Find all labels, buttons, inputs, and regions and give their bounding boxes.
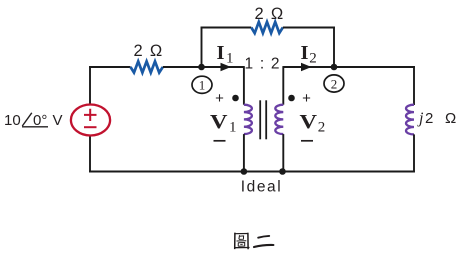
current I2 arrow — [301, 63, 312, 72]
label: Ideal — [241, 179, 283, 196]
wire: main horizontal, source to resistor R1 — [89, 66, 130, 68]
label: + (primary) — [215, 90, 224, 107]
node 1 junction dot — [198, 64, 205, 71]
node 2 junction dot — [331, 64, 338, 71]
wire: top rail right segment — [283, 27, 335, 29]
resistor R2 2 ohm (top, blue zigzag) — [251, 22, 282, 33]
wire: main horizontal, transformer secondary to right branch — [283, 66, 415, 68]
node 2 label (circled 2) — [324, 75, 344, 92]
inductor L1 j2 ohm (purple coil) — [406, 105, 414, 135]
svg-text:1: 1 — [229, 120, 237, 136]
svg-text:2: 2 — [309, 51, 317, 67]
label: 1 : 2 turns ratio — [245, 56, 281, 73]
label: minus (primary) — [214, 140, 226, 142]
label: 10 angle 0 degrees V (source value) — [4, 112, 63, 129]
junction dot: secondary to bottom rail — [279, 168, 286, 175]
polarity dot primary — [232, 95, 239, 102]
wire: left vertical from main wire to source top — [89, 66, 91, 105]
label: I2 — [301, 42, 317, 67]
svg-text:10: 10 — [4, 112, 21, 129]
wire: right vertical from inductor to bottom rail — [413, 134, 415, 172]
transformer T1 secondary winding (right coil) — [275, 66, 283, 171]
svg-text:I: I — [217, 42, 225, 64]
glyph TU (figure) — [234, 233, 249, 250]
wire: left vertical from source bottom to bottom rail — [89, 135, 91, 172]
wire: right riser from top rail to node 2 — [333, 27, 335, 67]
wire: top rail left segment — [201, 27, 252, 29]
label: minus (secondary) — [301, 140, 313, 142]
svg-text:2: 2 — [425, 110, 433, 127]
svg-text:I: I — [301, 42, 309, 64]
svg-text:2: 2 — [331, 76, 338, 91]
svg-text:0°: 0° — [33, 112, 47, 129]
svg-text:1: 1 — [226, 51, 234, 67]
svg-text:V: V — [300, 111, 318, 133]
svg-text:j: j — [417, 110, 424, 127]
svg-text:+: + — [302, 90, 311, 107]
svg-text:1 : 2: 1 : 2 — [245, 56, 281, 73]
svg-text:Ideal: Ideal — [241, 179, 283, 196]
polarity dot secondary — [288, 95, 295, 102]
junction dot: primary to bottom rail — [241, 168, 248, 175]
wire: right vertical from main wire to inductor — [413, 66, 415, 105]
current I1 arrow — [221, 63, 232, 72]
svg-text:2: 2 — [318, 120, 326, 136]
svg-text:V: V — [53, 112, 63, 129]
svg-text:Ω: Ω — [445, 110, 456, 127]
svg-text:2 Ω: 2 Ω — [255, 5, 285, 23]
label: j2 Ohm — [417, 110, 456, 127]
svg-text:1: 1 — [199, 78, 206, 93]
transformer T1 primary winding (left coil) — [244, 66, 252, 171]
label: V1 — [210, 111, 237, 136]
transformer core (two bars) — [260, 100, 266, 139]
svg-text:V: V — [210, 111, 228, 133]
wire: left riser from node 1 to top rail — [201, 27, 203, 67]
node 1 label (circled 1) — [192, 76, 212, 93]
svg-text:+: + — [215, 90, 224, 107]
wire: bottom rail — [89, 171, 415, 173]
voltage source VS (red ellipse with plus minus) — [71, 105, 110, 136]
label: + (secondary) — [302, 90, 311, 107]
label: 2 Ohm (left resistor value) — [134, 42, 164, 60]
svg-text:2 Ω: 2 Ω — [134, 42, 164, 60]
label: V2 — [300, 111, 326, 136]
glyph ER (two) — [254, 236, 273, 247]
wire: main horizontal, resistor R1 to transformer primary — [163, 66, 244, 68]
label: I1 — [217, 42, 234, 67]
label: 2 Ohm (top resistor value) — [255, 5, 285, 23]
resistor R1 2 ohm (left, blue zigzag) — [131, 61, 163, 72]
caption: figure 2 (hand-drawn CJK glyphs) — [234, 233, 273, 250]
